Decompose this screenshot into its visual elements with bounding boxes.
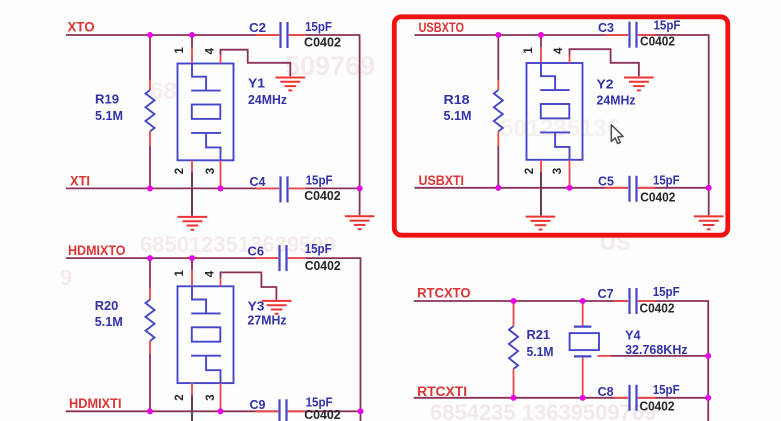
wire right rail block1	[359, 34, 361, 188]
svg-text:C3: C3	[598, 20, 614, 35]
svg-text:32.768KHz: 32.768KHz	[625, 342, 688, 357]
wire Y2 pin1 vertical	[540, 35, 542, 64]
capacitor C8 pin stubs	[614, 397, 655, 399]
crystal Y4	[570, 301, 688, 398]
svg-text:5.1M: 5.1M	[95, 108, 123, 123]
svg-text:C4: C4	[250, 174, 267, 189]
wire right rail block4	[707, 300, 709, 398]
ground for Y2 pin4	[624, 78, 654, 91]
capacitor C3 pin stubs	[605, 34, 655, 36]
crystal Y3	[178, 286, 287, 383]
ground for Y3 pin4	[262, 301, 292, 314]
wire right rail to ground block2	[708, 188, 710, 215]
wire Y3 pin3 stub	[220, 383, 222, 411]
svg-text:RTCXTI: RTCXTI	[417, 384, 467, 399]
resistor R20	[95, 258, 155, 411]
svg-text:USBXTO: USBXTO	[419, 20, 465, 35]
svg-text:HDMIXTO: HDMIXTO	[68, 243, 126, 258]
wire Y1 pin2 to ground	[191, 160, 193, 216]
junction dot R20 bottom	[147, 408, 153, 414]
svg-text:2: 2	[174, 394, 186, 400]
junction dot Y4 top	[580, 298, 586, 304]
svg-text:15pF: 15pF	[653, 172, 680, 187]
capacitor C6	[248, 241, 332, 271]
junction dot Y1 pin3	[218, 186, 224, 192]
capacitor C7 pin stubs	[614, 300, 655, 302]
wire right rail below block4	[707, 398, 709, 421]
wire XTI bottom rail	[66, 187, 360, 189]
capacitor C9 pin stubs	[256, 410, 307, 412]
svg-text:1: 1	[523, 47, 535, 54]
wire RTCXTO top rail	[414, 300, 709, 302]
svg-text:15pF: 15pF	[306, 172, 333, 187]
svg-text:1: 1	[174, 270, 186, 277]
svg-text:R18: R18	[444, 92, 470, 107]
svg-text:Y2: Y2	[597, 77, 614, 92]
svg-text:C0402: C0402	[640, 34, 675, 49]
selection rectangle	[394, 17, 728, 235]
svg-text:C8: C8	[598, 384, 614, 399]
capacitor C9	[250, 395, 333, 421]
junction dot R21 top	[511, 298, 517, 304]
background watermark	[60, 51, 656, 421]
svg-text:HDMIXTI: HDMIXTI	[69, 396, 122, 411]
junction dot right rail bottom block2	[706, 185, 712, 191]
svg-text:2: 2	[174, 168, 186, 174]
svg-text:4: 4	[553, 47, 565, 54]
svg-text:C6: C6	[248, 243, 265, 258]
junction dot R18 top	[495, 32, 501, 38]
junction dot R18 bottom	[495, 185, 501, 191]
capacitor C6 pin stubs	[256, 257, 307, 259]
wire right rail block2	[708, 34, 710, 188]
svg-text:C0402: C0402	[640, 190, 675, 205]
ground right rail block2	[694, 216, 724, 229]
capacitor C5	[598, 172, 680, 202]
svg-text:R21: R21	[527, 327, 551, 342]
wire HDMIXTO top rail	[66, 257, 361, 259]
wire Y2 pin2 to ground	[540, 160, 542, 216]
resistor R18	[444, 35, 503, 188]
wire right rail to ground block1	[359, 188, 361, 215]
svg-text:C0402: C0402	[640, 300, 675, 315]
wire USBXTO top rail	[415, 34, 709, 36]
svg-text:XTO: XTO	[68, 20, 95, 35]
junction dot Y4 bottom	[580, 395, 586, 401]
svg-text:24MHz: 24MHz	[597, 93, 636, 108]
crystal Y2	[527, 63, 636, 160]
junction dot Y1 pin1 top	[189, 32, 195, 38]
wire Y3 pin2 to ground	[191, 383, 193, 421]
capacitor C2	[249, 19, 332, 48]
junction dot R19 bottom	[147, 186, 153, 192]
wire Y1 pin1 vertical	[191, 35, 193, 64]
wire Y2 pin4 to ground staircase	[570, 49, 639, 76]
svg-text:Y1: Y1	[248, 76, 265, 91]
wire XTO top rail	[66, 34, 360, 36]
svg-text:C0402: C0402	[640, 399, 675, 414]
junction dots overlay	[147, 32, 712, 414]
wire Y3 pin1 vertical	[191, 258, 193, 287]
svg-text:24MHz: 24MHz	[248, 92, 287, 107]
svg-text:15pF: 15pF	[653, 284, 680, 299]
capacitor C5 pin stubs	[605, 187, 655, 189]
svg-text:4: 4	[204, 47, 216, 54]
wire right rail block3	[360, 257, 362, 411]
junction dot Y2 pin3	[567, 185, 573, 191]
svg-text:15pF: 15pF	[654, 17, 681, 32]
svg-text:Y4: Y4	[625, 328, 641, 343]
wire Y4 to right rail	[597, 355, 708, 357]
junction dot Y2 pin1 top	[538, 32, 544, 38]
svg-text:R19: R19	[95, 92, 119, 107]
capacitor C2 pin stubs	[256, 34, 306, 36]
ground for Y1 pin2	[178, 217, 208, 230]
svg-text:5.1M: 5.1M	[444, 108, 472, 123]
junction dot R21 bottom	[511, 395, 517, 401]
wire HDMIXTI bottom rail	[66, 410, 361, 412]
svg-text:C2: C2	[249, 20, 266, 35]
junction dot right rail bottom block1	[357, 186, 363, 192]
svg-text:C7: C7	[598, 286, 614, 301]
svg-text:9: 9	[60, 265, 72, 290]
capacitor C3	[598, 17, 681, 47]
svg-text:R20: R20	[95, 298, 119, 313]
wire Y1 pin4 to ground staircase	[221, 50, 291, 77]
svg-text:2: 2	[524, 168, 536, 174]
svg-text:5.1M: 5.1M	[527, 344, 554, 359]
ground for Y1 pin4	[276, 78, 306, 91]
svg-text:3: 3	[552, 168, 564, 174]
ground right rail block1	[345, 216, 375, 229]
resistor R21	[509, 301, 554, 398]
svg-text:C0402: C0402	[304, 407, 340, 421]
ground for Y2 pin2	[526, 217, 556, 230]
capacitor C4 pin stubs	[256, 187, 306, 189]
wire Y1 pin3 stub	[220, 160, 222, 188]
svg-text:15pF: 15pF	[653, 382, 680, 397]
capacitor C8	[598, 382, 680, 411]
svg-text:USBXTI: USBXTI	[419, 173, 465, 188]
svg-text:27MHz: 27MHz	[248, 313, 287, 328]
junction dot right rail bottom block4	[705, 395, 711, 401]
capacitor C4	[250, 172, 333, 202]
svg-text:RTCXTO: RTCXTO	[417, 286, 471, 301]
svg-text:1: 1	[174, 47, 186, 54]
junction dot right rail bottom block3	[358, 408, 364, 414]
junction dot Y3 pin3	[218, 408, 224, 414]
wire Y2 pin3 stub	[569, 160, 571, 188]
wire right rail below block3	[360, 411, 362, 421]
svg-text:4: 4	[204, 270, 216, 277]
resistor R19	[95, 35, 155, 188]
junction dot R19 top	[147, 32, 153, 38]
svg-text:C0402: C0402	[304, 34, 341, 49]
svg-text:XTI: XTI	[70, 173, 90, 188]
svg-text:15pF: 15pF	[305, 241, 332, 256]
capacitor C7	[598, 284, 680, 314]
svg-text:5.1M: 5.1M	[95, 314, 123, 329]
svg-text:6854235 13639509769: 6854235 13639509769	[430, 400, 656, 421]
svg-text:C0402: C0402	[305, 258, 341, 273]
svg-text:C9: C9	[250, 397, 266, 412]
mouse cursor	[611, 125, 623, 144]
wire Y3 pin4 to ground staircase	[221, 272, 277, 299]
svg-text:C5: C5	[598, 174, 614, 189]
svg-text:15pF: 15pF	[305, 19, 332, 34]
svg-text:3: 3	[205, 168, 217, 174]
wire RTCXTI bottom rail	[414, 397, 709, 399]
crystal Y1	[178, 64, 288, 161]
junction dot Y4 wire right rail	[705, 353, 711, 359]
wire USBXTI bottom rail	[415, 187, 709, 189]
junction dot R20 top	[147, 255, 153, 261]
svg-text:3: 3	[205, 394, 217, 400]
svg-text:C0402: C0402	[304, 188, 340, 203]
junction dot Y3 pin1 top	[189, 255, 195, 261]
